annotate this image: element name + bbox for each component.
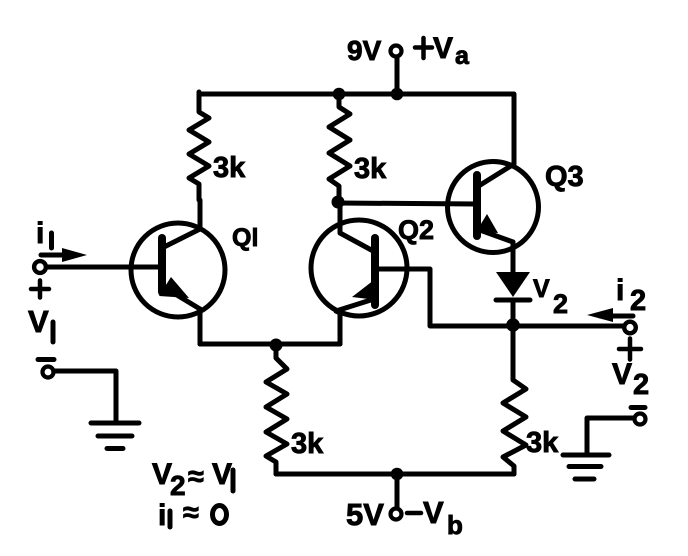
- terminal 9V supply: [391, 46, 402, 57]
- wire emitter bus: [200, 342, 340, 347]
- svg-text:Q3: Q3: [545, 161, 584, 193]
- transistor Q2 emitter: [336, 299, 374, 311]
- transistor Q3 circle: [448, 162, 539, 253]
- terminal V1 ground side: [43, 367, 54, 378]
- svg-text:3k: 3k: [291, 428, 324, 460]
- wire Q3 collector: [477, 94, 514, 187]
- ground left: [91, 423, 139, 449]
- plus sign V2: [619, 339, 641, 360]
- plus sign of +Va: [415, 38, 432, 58]
- subscript 1 of V1: [51, 322, 56, 342]
- svg-text:3k: 3k: [213, 152, 246, 184]
- terminal input i1: [34, 261, 46, 273]
- resistor R3 3k (bottom middle): [266, 351, 287, 474]
- ground right: [563, 455, 609, 479]
- wire diode to output node: [511, 300, 516, 325]
- svg-text:2: 2: [553, 289, 568, 319]
- transistor Q3 emitter arrow: [476, 214, 498, 233]
- subscript 1 of V1 in equation: [231, 470, 236, 491]
- svg-text:V: V: [28, 304, 49, 339]
- wire bottom -Vb rail: [276, 472, 514, 477]
- node output V2: [506, 318, 520, 332]
- svg-text:a: a: [455, 42, 470, 70]
- resistor R2 3k (middle): [329, 96, 350, 199]
- minus sign Vb: [407, 511, 421, 516]
- minus sign V1: [38, 357, 54, 362]
- arrow i1 current: [41, 253, 66, 258]
- wire Q1 collector: [162, 200, 200, 248]
- svg-text:V: V: [423, 495, 444, 530]
- svg-text:5V: 5V: [346, 497, 384, 532]
- svg-text:2: 2: [633, 369, 649, 401]
- resistor R4 3k (right): [503, 331, 526, 474]
- label zero of i1 approx 0: [213, 506, 227, 524]
- wire Q3 base: [338, 203, 477, 204]
- node junction rail/9V: [391, 88, 404, 101]
- svg-text:i: i: [616, 274, 624, 307]
- svg-text:3k: 3k: [526, 427, 559, 459]
- wire Q1 base input: [47, 265, 162, 270]
- diode D1 cathode bar: [496, 298, 530, 303]
- terminal 5V supply: [391, 509, 402, 520]
- diode D1 triangle: [496, 272, 530, 297]
- transistor Q1 circle: [131, 223, 225, 317]
- svg-text:V: V: [433, 32, 453, 65]
- svg-text:V: V: [533, 275, 550, 303]
- node junction rail/R2: [333, 88, 346, 101]
- wire Q1 emitter lead: [198, 309, 203, 344]
- wire V2 to ground: [587, 418, 633, 453]
- transistor Q1 base bar: [158, 238, 166, 292]
- svg-text:i: i: [36, 217, 44, 250]
- transistor Q3 emitter: [477, 229, 513, 242]
- svg-text:b: b: [447, 510, 463, 540]
- transistor Q2 base bar: [371, 238, 379, 305]
- node junction R2/Q2 collector/Q3 base: [332, 196, 345, 209]
- resistor R1 3k (left): [189, 92, 209, 200]
- transistor Q2 emitter arrow: [352, 280, 377, 300]
- subscript 1 of i1: [49, 233, 54, 248]
- svg-text:V: V: [212, 458, 232, 491]
- node junction rail/5V: [391, 468, 404, 481]
- minus sign V2: [631, 405, 645, 410]
- transistor Q2 circle: [311, 220, 407, 316]
- terminal output i2: [624, 322, 636, 334]
- transistor Q1 emitter arrow: [159, 277, 189, 298]
- transistor Q1 emitter: [162, 286, 200, 309]
- wire Q2 collector: [340, 203, 375, 252]
- svg-text:Ql: Ql: [232, 224, 258, 252]
- wire top +Va supply rail: [199, 92, 513, 97]
- wire V1 to ground: [55, 371, 116, 421]
- wire Q2 emitter lead: [336, 311, 340, 344]
- transistor Q3 base bar: [473, 175, 481, 236]
- wire output: [513, 324, 623, 329]
- wire Q3 emitter to diode: [511, 242, 516, 272]
- svg-text:V: V: [152, 458, 172, 491]
- plus sign V1: [31, 281, 49, 298]
- svg-text:V: V: [612, 358, 632, 391]
- node emitter bus / R3: [270, 339, 283, 352]
- svg-text:≈: ≈: [188, 461, 204, 493]
- svg-text:2: 2: [630, 285, 646, 317]
- wire Q2 base feedback: [375, 269, 509, 326]
- wire 5V terminal lead: [395, 476, 400, 507]
- wire 9V terminal lead: [395, 58, 400, 92]
- terminal V2 ground side: [635, 414, 646, 425]
- svg-text:9V: 9V: [347, 35, 382, 66]
- svg-text:i: i: [158, 499, 166, 532]
- svg-text:Q2: Q2: [398, 215, 434, 245]
- subscript 1 of i1 in equation: [168, 511, 173, 527]
- svg-text:3k: 3k: [354, 153, 387, 185]
- svg-text:≈: ≈: [183, 497, 199, 529]
- arrow i2 current: [600, 314, 633, 319]
